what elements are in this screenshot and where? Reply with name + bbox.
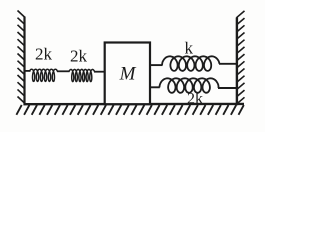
spring 2k left-2 [69, 69, 95, 81]
left wall hatching [18, 11, 26, 104]
left wall [23, 17, 25, 106]
right wall [236, 18, 238, 106]
wire left spring 2 to box [94, 71, 105, 73]
svg-text:2k: 2k [70, 47, 88, 66]
svg-text:2k: 2k [35, 45, 53, 64]
floor [24, 103, 245, 106]
spring k (right top) [162, 56, 220, 71]
svg-text:2k: 2k [187, 91, 203, 108]
spring 2k (right bottom) [160, 78, 219, 93]
spring 2k left-1 [30, 69, 58, 81]
wire spring 2k to right wall [218, 87, 237, 89]
right wall hatching [237, 11, 245, 104]
wire spring k to right wall [219, 63, 237, 65]
wire box to spring k [150, 64, 163, 66]
svg-text:k: k [184, 39, 193, 58]
wire box to spring 2k right [150, 86, 160, 88]
floor hatching [16, 105, 243, 115]
wire wall to left spring 1 [25, 70, 31, 72]
svg-text:M: M [119, 64, 137, 85]
mass M box [105, 43, 150, 105]
wire between left springs [57, 70, 70, 72]
